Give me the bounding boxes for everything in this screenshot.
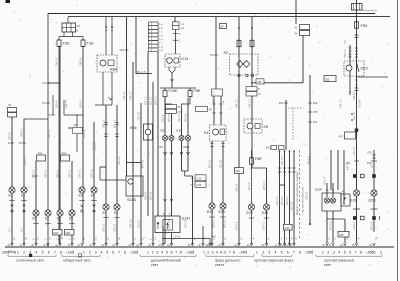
- svg-text:SW 1.5: SW 1.5: [122, 91, 126, 100]
- svg-text:34B: 34B: [257, 81, 262, 84]
- svg-text:2N: 2N: [340, 245, 343, 247]
- svg-text:SW 0.5: SW 0.5: [129, 219, 133, 228]
- svg-text:WS 1.5: WS 1.5: [113, 119, 117, 128]
- svg-text:GR 1.5: GR 1.5: [370, 159, 374, 168]
- svg-text:154: 154: [279, 101, 284, 105]
- svg-text:GE 0.5: GE 0.5: [262, 221, 266, 230]
- svg-text:6.0 SW: 6.0 SW: [358, 99, 362, 108]
- svg-text:GE 0.5: GE 0.5: [144, 191, 148, 200]
- svg-text:8: 8: [360, 250, 362, 254]
- svg-text:1-f: 1-f: [159, 42, 162, 45]
- svg-text:GR 0.5: GR 0.5: [275, 196, 279, 205]
- svg-text:4: 4: [216, 250, 218, 254]
- svg-text:K63: K63: [361, 66, 369, 71]
- svg-text:E4: E4: [103, 211, 107, 215]
- svg-text:GR 0.5: GR 0.5: [82, 129, 86, 138]
- svg-text:WS 0.5: WS 0.5: [370, 221, 374, 230]
- svg-text:18: 18: [18, 141, 22, 145]
- svg-text:KE8: KE8: [184, 145, 190, 149]
- svg-text:→260: →260: [364, 250, 373, 254]
- svg-text:206: 206: [66, 231, 71, 235]
- svg-text:E3: E3: [79, 193, 83, 197]
- svg-text:S14D: S14D: [127, 198, 137, 202]
- svg-text:F10E: F10E: [169, 89, 179, 93]
- svg-text:WS 1.5: WS 1.5: [154, 96, 158, 105]
- svg-text:8: 8: [60, 250, 62, 254]
- svg-text:E22: E22: [207, 210, 213, 214]
- svg-text:S141: S141: [182, 217, 191, 221]
- svg-text:F50: F50: [361, 23, 369, 28]
- svg-text:GR 0.5: GR 0.5: [47, 129, 51, 138]
- svg-text:2: 2: [380, 250, 382, 254]
- svg-text:0.5: 0.5: [20, 228, 24, 232]
- svg-text:56: 56: [210, 53, 214, 57]
- svg-text:GR 0.5: GR 0.5: [102, 223, 106, 232]
- svg-text:GR 0.5: GR 0.5: [235, 183, 239, 192]
- svg-text:5: 5: [106, 250, 108, 254]
- svg-text:2: 2: [327, 250, 329, 254]
- svg-text:E5: E5: [69, 217, 73, 221]
- svg-text:WS 0.5: WS 0.5: [141, 159, 145, 168]
- svg-text:GR 0.5: GR 0.5: [55, 99, 59, 108]
- svg-text:0.5: 0.5: [343, 40, 347, 44]
- svg-text:E2: E2: [45, 217, 49, 221]
- svg-text:GE 0.5: GE 0.5: [137, 219, 141, 228]
- svg-text:S22P: S22P: [315, 188, 322, 192]
- svg-text:E1: E1: [21, 193, 25, 197]
- svg-text:GR 0.5: GR 0.5: [323, 176, 327, 185]
- svg-text:GR 0.5: GR 0.5: [212, 219, 216, 228]
- svg-text:WS 0.5: WS 0.5: [329, 221, 333, 230]
- svg-text:E5: E5: [33, 217, 37, 221]
- svg-text:1: 1: [147, 250, 149, 254]
- svg-text:4: 4: [274, 250, 276, 254]
- svg-text:свет: свет: [324, 263, 332, 267]
- svg-text:→210: →210: [64, 250, 73, 254]
- svg-text:3: 3: [268, 250, 270, 254]
- svg-text:14 3: 14 3: [175, 235, 181, 239]
- svg-text:→220: →220: [128, 250, 137, 254]
- svg-text:E4: E4: [91, 193, 95, 197]
- svg-text:2: 2: [207, 250, 209, 254]
- svg-text:103: 103: [119, 48, 124, 52]
- svg-text:A2a: A2a: [38, 152, 43, 155]
- svg-text:GR 0.5: GR 0.5: [117, 156, 121, 165]
- svg-text:E3: E3: [9, 193, 13, 197]
- svg-text:AB: AB: [209, 109, 213, 112]
- svg-text:SW 0.5: SW 0.5: [64, 99, 68, 108]
- svg-text:E7: E7: [160, 145, 164, 149]
- svg-text:7: 7: [118, 250, 120, 254]
- svg-text:с зад. противотуманными: с зад. противотуманными: [302, 186, 305, 215]
- svg-text:8: 8: [124, 250, 126, 254]
- svg-text:6: 6: [349, 250, 351, 254]
- svg-text:SW 1.5: SW 1.5: [212, 91, 216, 100]
- svg-text:GR 0.5: GR 0.5: [113, 223, 117, 232]
- svg-text:4: 4: [161, 250, 163, 254]
- svg-text:3N: 3N: [280, 245, 283, 247]
- svg-text:153: 153: [313, 101, 318, 105]
- svg-text:4: 4: [101, 250, 103, 254]
- svg-text:GE 0.5: GE 0.5: [161, 219, 165, 228]
- svg-text:GE 1.5: GE 1.5: [352, 111, 356, 120]
- svg-text:GR 0.5: GR 0.5: [32, 169, 36, 178]
- svg-text:2: 2: [152, 250, 154, 254]
- svg-text:7: 7: [54, 250, 56, 254]
- svg-text:2: 2: [262, 250, 264, 254]
- svg-text:света: света: [215, 263, 224, 267]
- svg-text:GR 0.5: GR 0.5: [23, 156, 27, 165]
- svg-text:HS: HS: [191, 178, 195, 180]
- svg-text:GE 1.5: GE 1.5: [149, 96, 153, 105]
- svg-text:GR 0.5: GR 0.5: [78, 169, 82, 178]
- svg-text:303: 303: [325, 77, 330, 81]
- svg-text:WS 0.5: WS 0.5: [167, 219, 171, 228]
- svg-text:2: 2: [89, 250, 91, 254]
- svg-text:GE 0.5: GE 0.5: [177, 113, 181, 122]
- svg-text:6: 6: [112, 250, 114, 254]
- svg-text:1: 1: [322, 250, 324, 254]
- svg-text:5: 5: [281, 250, 283, 254]
- svg-text:E21: E21: [262, 211, 268, 215]
- svg-text:GE 1.5: GE 1.5: [137, 111, 141, 120]
- svg-text:стояночный свет: стояночный свет: [16, 259, 45, 263]
- svg-text:8: 8: [299, 250, 301, 254]
- svg-text:1: 1: [203, 250, 205, 254]
- svg-text:F8E: F8E: [255, 157, 262, 161]
- svg-text:E39: E39: [350, 198, 358, 203]
- svg-text:SW 0.5: SW 0.5: [55, 57, 59, 66]
- svg-text:2N: 2N: [188, 245, 191, 247]
- svg-text:S2: S2: [224, 51, 229, 55]
- svg-text:F1E: F1E: [87, 41, 95, 46]
- svg-text:WS 0.5: WS 0.5: [184, 113, 188, 122]
- svg-text:1N: 1N: [128, 245, 131, 247]
- svg-text:6: 6: [287, 250, 289, 254]
- svg-text:BL 0.5: BL 0.5: [247, 182, 251, 190]
- svg-text:8: 8: [233, 250, 235, 254]
- svg-text:GR 1.5: GR 1.5: [352, 146, 356, 155]
- svg-text:WS 0.5: WS 0.5: [223, 219, 227, 228]
- svg-text:→250: →250: [303, 250, 312, 254]
- svg-text:3: 3: [156, 250, 158, 254]
- svg-text:A2b: A2b: [74, 124, 79, 127]
- svg-text:4: 4: [338, 250, 340, 254]
- svg-text:GR 0.5: GR 0.5: [90, 169, 94, 178]
- svg-text:457: 457: [339, 136, 344, 139]
- svg-text:F51: F51: [368, 152, 373, 155]
- svg-text:0.5: 0.5: [8, 228, 12, 232]
- svg-text:155: 155: [313, 110, 318, 114]
- svg-text:1N: 1N: [43, 245, 46, 247]
- svg-text:GR 0.5: GR 0.5: [235, 221, 239, 230]
- svg-text:WS 0.5: WS 0.5: [262, 181, 266, 190]
- svg-text:K5: K5: [264, 125, 269, 129]
- svg-text:1-25: 1-25: [196, 177, 201, 180]
- svg-text:SW 1.5: SW 1.5: [248, 99, 252, 108]
- svg-text:151: 151: [313, 120, 318, 124]
- svg-text:GR 0.5: GR 0.5: [79, 99, 83, 108]
- svg-text:X4: X4: [42, 101, 46, 105]
- svg-text:GR 0.5: GR 0.5: [44, 169, 48, 178]
- svg-text:габаритный свет: габаритный свет: [63, 259, 91, 263]
- svg-text:E9: E9: [161, 129, 165, 133]
- svg-text:BL 0.5: BL 0.5: [161, 114, 165, 122]
- svg-text:1: 1: [83, 250, 85, 254]
- svg-text:K46: K46: [130, 126, 137, 130]
- svg-text:1: 1: [256, 250, 258, 254]
- svg-text:SW 1.5: SW 1.5: [129, 91, 133, 100]
- svg-text:6: 6: [171, 250, 173, 254]
- svg-text:3: 3: [333, 250, 335, 254]
- svg-text:7: 7: [229, 250, 231, 254]
- svg-text:204: 204: [54, 231, 59, 235]
- svg-text:5: 5: [220, 250, 222, 254]
- svg-text:K6B: K6B: [110, 68, 117, 72]
- svg-text:GE 1.5: GE 1.5: [219, 159, 223, 168]
- svg-text:1: 1: [374, 250, 376, 254]
- svg-text:SW 0.5: SW 0.5: [305, 191, 309, 200]
- svg-text:E1: E1: [114, 211, 118, 215]
- svg-text:WS 0.5: WS 0.5: [280, 196, 284, 205]
- svg-text:1N: 1N: [218, 245, 221, 247]
- svg-text:King: King: [9, 250, 16, 254]
- svg-text:свет: свет: [151, 263, 159, 267]
- svg-text:GR 0.5: GR 0.5: [20, 128, 24, 137]
- svg-text:F26: F26: [63, 41, 71, 46]
- svg-text:SW 2.5: SW 2.5: [352, 91, 356, 100]
- svg-text:E24: E24: [369, 198, 377, 203]
- svg-text:7: 7: [293, 250, 295, 254]
- svg-text:WS 1.5: WS 1.5: [144, 96, 148, 105]
- svg-text:GE 0.5: GE 0.5: [285, 196, 289, 205]
- svg-text:SW 1.5: SW 1.5: [102, 119, 106, 128]
- svg-text:GR 0.5: GR 0.5: [8, 131, 12, 140]
- svg-text:5: 5: [344, 250, 346, 254]
- svg-text:F4C: F4C: [285, 227, 290, 230]
- svg-text:A2a: A2a: [62, 152, 67, 155]
- svg-text:30: 30: [42, 81, 46, 85]
- svg-text:SW 2.5: SW 2.5: [339, 99, 343, 108]
- svg-text:10: 10: [77, 24, 81, 28]
- svg-text:5: 5: [166, 250, 168, 254]
- svg-text:K4: K4: [204, 131, 209, 135]
- svg-text:WS 1.5: WS 1.5: [208, 159, 212, 168]
- svg-text:WS 0.5: WS 0.5: [149, 191, 153, 200]
- svg-text:6: 6: [48, 250, 50, 254]
- svg-text:2: 2: [23, 250, 25, 254]
- svg-text:B: B: [258, 87, 260, 91]
- svg-text:SW 1.5: SW 1.5: [307, 156, 311, 165]
- svg-text:245: 245: [339, 233, 344, 237]
- svg-text:200: 200: [2, 250, 8, 254]
- svg-text:RTL 0.5: RTL 0.5: [136, 70, 146, 74]
- svg-text:GR 0.5: GR 0.5: [68, 169, 72, 178]
- svg-text:3: 3: [29, 250, 31, 254]
- svg-text:3: 3: [212, 250, 214, 254]
- svg-text:6: 6: [224, 250, 226, 254]
- svg-text:F9E: F9E: [194, 89, 201, 93]
- svg-text:1: 1: [17, 250, 19, 254]
- svg-text:2-55: 2-55: [196, 184, 201, 187]
- svg-text:4: 4: [35, 250, 37, 254]
- svg-text:GR 0.5: GR 0.5: [92, 141, 96, 150]
- svg-text:WS 0.5: WS 0.5: [290, 201, 294, 210]
- svg-text:противотуманная фара: противотуманная фара: [254, 259, 293, 263]
- svg-text:→240: →240: [237, 250, 246, 254]
- svg-text:7: 7: [175, 250, 177, 254]
- svg-text:3: 3: [95, 250, 97, 254]
- svg-text:SW 1.5: SW 1.5: [343, 49, 347, 58]
- svg-text:SW 1.5: SW 1.5: [235, 99, 239, 108]
- svg-text:BR 1.5: BR 1.5: [346, 162, 350, 170]
- svg-text:7: 7: [355, 250, 357, 254]
- svg-text:8: 8: [180, 250, 182, 254]
- svg-text:349: 349: [236, 169, 241, 173]
- svg-text:E10: E10: [177, 129, 183, 133]
- svg-text:K13: K13: [182, 57, 189, 61]
- svg-text:GR 0.5: GR 0.5: [56, 169, 60, 178]
- svg-text:WS 0.5: WS 0.5: [167, 113, 171, 122]
- svg-text:5: 5: [42, 250, 44, 254]
- svg-text:WS 0.5: WS 0.5: [280, 156, 284, 165]
